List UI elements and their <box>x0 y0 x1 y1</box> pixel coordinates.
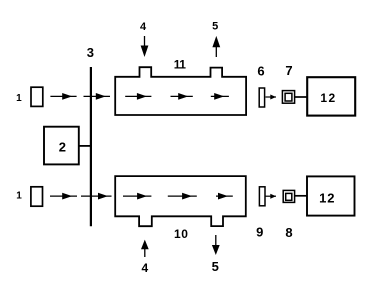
svg-text:9: 9 <box>256 225 263 240</box>
internal flow arrow 1 of block 11 <box>125 93 151 100</box>
arrow 5 pointing down out of block 10 (bottom) <box>212 235 220 255</box>
svg-text:8: 8 <box>285 225 292 240</box>
internal flow arrow 3 of block 10 <box>216 193 233 200</box>
element 9 (narrow vertical plate, bottom) <box>259 187 265 206</box>
small arrow from 6 to 7 <box>266 95 277 100</box>
vertical line 3 <box>90 67 92 226</box>
wire from block 2 to line 3 <box>79 145 91 147</box>
block 2 <box>44 127 79 165</box>
wire arrow crossing line 3 into block 10 <box>81 193 112 200</box>
svg-text:2: 2 <box>59 139 66 154</box>
source block 1 (bottom small rectangle) <box>31 187 43 206</box>
element 8 (detector square outer, bottom) <box>283 190 294 202</box>
element 7 (detector square, outer) <box>282 91 294 104</box>
arrow 4 pointing up into block 10 (bottom) <box>141 240 149 257</box>
source block 1 (top small rectangle) <box>31 87 43 106</box>
svg-text:4: 4 <box>141 261 148 275</box>
internal flow arrow 3 of block 11 <box>211 93 229 100</box>
element 7 inner square <box>285 93 292 101</box>
wire arrow crossing line 3 into block 11 <box>84 93 111 100</box>
arrow 5 pointing up out of block 11 <box>212 36 220 57</box>
block 12 (top) <box>307 77 355 115</box>
internal flow arrow 2 of block 10 <box>168 193 197 200</box>
internal flow arrow 1 of block 10 <box>123 193 151 200</box>
svg-text:7: 7 <box>285 63 292 78</box>
svg-text:5: 5 <box>212 20 218 32</box>
block 12 (bottom) <box>307 176 355 215</box>
wire arrow from source 1 to line 3 (bottom) <box>50 193 77 200</box>
svg-text:11: 11 <box>174 58 187 72</box>
block 10 (lower tube with two bottom ports) <box>115 176 246 226</box>
svg-text:1: 1 <box>16 93 22 104</box>
svg-text:3: 3 <box>87 45 94 60</box>
small arrow from 9 to 8 <box>266 194 277 199</box>
wire from 8 to block 12 (bottom) <box>295 195 308 197</box>
element 6 (narrow vertical plate) <box>259 88 264 107</box>
internal flow arrow 2 of block 11 <box>171 93 193 100</box>
svg-text:12: 12 <box>320 91 336 105</box>
svg-text:12: 12 <box>319 190 335 205</box>
svg-text:1: 1 <box>16 190 22 201</box>
arrow 4 pointing down into block 11 <box>141 36 149 57</box>
svg-text:6: 6 <box>257 64 264 79</box>
svg-text:5: 5 <box>212 259 219 274</box>
svg-text:10: 10 <box>174 227 188 241</box>
wire from 7 to block 12 (top) <box>295 96 308 98</box>
element 8 inner square <box>286 193 292 200</box>
svg-text:4: 4 <box>140 21 147 33</box>
block 11 (upper tube with two top ports) <box>115 67 246 115</box>
wire arrow from source 1 to line 3 (top) <box>50 93 76 100</box>
